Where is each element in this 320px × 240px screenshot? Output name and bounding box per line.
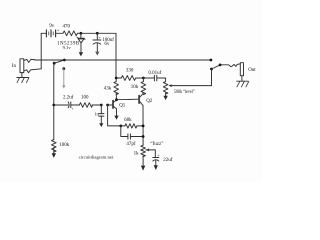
node dot 100uf junction bbox=[96, 32, 99, 35]
input jack ground bbox=[17, 73, 29, 83]
svg-text:22uf: 22uf bbox=[163, 158, 173, 163]
resistor R4 330 bbox=[116, 68, 143, 80]
svg-text:9v: 9v bbox=[49, 24, 55, 29]
wire battery minus down to input jack ring bbox=[40, 33, 42, 69]
pot fuzz ground bbox=[141, 156, 145, 171]
pot VR2 500k level bbox=[163, 82, 211, 96]
svg-text:1k: 1k bbox=[134, 152, 140, 157]
svg-text:68k: 68k bbox=[124, 118, 132, 123]
node dot 47pf right bbox=[142, 135, 145, 138]
output switch lever bbox=[212, 65, 221, 69]
svg-text:2.2uf: 2.2uf bbox=[63, 96, 74, 101]
node dot feedback junction bbox=[106, 104, 109, 107]
svg-text:500k “level”: 500k “level” bbox=[174, 89, 195, 95]
wire Q2 emitter down bbox=[142, 105, 144, 145]
Q1 emitter ground bbox=[114, 109, 118, 120]
resistor R7 100k bbox=[52, 105, 70, 153]
svg-text:100: 100 bbox=[81, 95, 89, 100]
svg-text:+: + bbox=[72, 107, 74, 111]
input switch spare ground arrow bbox=[62, 69, 65, 89]
input switch: node A on bypass wire bbox=[63, 59, 66, 62]
out jack ground bbox=[237, 76, 249, 87]
node dot input junction bbox=[52, 104, 55, 107]
battery B1 9v bbox=[41, 24, 63, 37]
input jack ring contact arm bbox=[24, 69, 41, 73]
capacitor C6 0.01uf bbox=[143, 71, 165, 82]
svg-text:6v: 6v bbox=[104, 42, 110, 47]
wire feedback down and right bbox=[108, 105, 121, 126]
zener D1 1N5239B bbox=[57, 33, 85, 56]
out jack J2 body bbox=[240, 63, 243, 76]
node dot 330 right bbox=[142, 77, 145, 80]
svg-text:circuitdiagram.net: circuitdiagram.net bbox=[79, 154, 114, 159]
wire Q1 collector to Q2 base bbox=[117, 98, 139, 101]
svg-text:330: 330 bbox=[126, 68, 134, 73]
wire switch common to out jack bbox=[220, 65, 234, 67]
transistor Q2 bbox=[139, 94, 153, 106]
output switch: node effect bbox=[210, 68, 213, 71]
resistor R6 68k bbox=[121, 118, 143, 128]
node dot 1n junction bbox=[100, 104, 103, 107]
svg-text:470: 470 bbox=[63, 24, 71, 29]
resistor R5 10k bbox=[131, 78, 146, 95]
pot level ground bbox=[163, 93, 167, 100]
svg-text:+: + bbox=[57, 28, 60, 33]
input switch: node C spare bbox=[62, 67, 65, 70]
node dot 330 left bbox=[115, 77, 118, 80]
output switch: node common bbox=[219, 64, 222, 67]
transistor Q1 bbox=[113, 100, 126, 109]
input jack tip contact arm bbox=[24, 59, 35, 62]
svg-text:Q1: Q1 bbox=[119, 103, 126, 108]
svg-text:Q2: Q2 bbox=[146, 99, 153, 104]
resistor R3 43k bbox=[104, 78, 119, 100]
svg-text:47pf: 47pf bbox=[126, 142, 135, 147]
resistor R2 100 bbox=[79, 95, 101, 107]
capacitor C2 2.2uf bbox=[54, 96, 80, 111]
node dot 68k left bbox=[119, 125, 122, 128]
svg-text:Out: Out bbox=[248, 68, 256, 73]
pot VR1 1k fuzz bbox=[134, 141, 164, 158]
wire effect output up from level pot bbox=[211, 69, 213, 86]
svg-text:0.01uf: 0.01uf bbox=[148, 71, 161, 76]
svg-text:9.1v: 9.1v bbox=[63, 45, 72, 50]
100k ground bbox=[52, 153, 56, 158]
svg-text:100k: 100k bbox=[59, 143, 69, 148]
capacitor C5 22uf bbox=[153, 153, 173, 171]
node dot zener junction bbox=[80, 32, 83, 35]
input switch lever bbox=[54, 60, 64, 63]
capacitor C3 1n bbox=[94, 105, 104, 127]
resistor R1 470 bbox=[63, 24, 81, 35]
out jack tip arm bbox=[234, 64, 240, 67]
node dot 68k right bbox=[142, 125, 145, 128]
wire effect input down bbox=[53, 63, 55, 105]
capacitor C4 47pf bbox=[121, 126, 143, 147]
wire base to Q1 bbox=[108, 104, 113, 106]
svg-text:In: In bbox=[12, 64, 17, 69]
svg-text:1n: 1n bbox=[94, 112, 99, 117]
svg-text:10k: 10k bbox=[131, 85, 139, 90]
wire rail cap to corner bbox=[97, 32, 116, 34]
capacitor C1 100uf 6v bbox=[93, 33, 114, 55]
svg-text:43k: 43k bbox=[104, 86, 112, 91]
wire bypass line bbox=[35, 59, 211, 61]
wire rail zener to cap bbox=[81, 32, 97, 34]
wire Q2 collector up bbox=[142, 92, 144, 95]
input jack J1 body bbox=[20, 59, 24, 73]
node dot Q1 collector / Q2 base bbox=[115, 98, 118, 101]
svg-text:“fuzz”: “fuzz” bbox=[150, 141, 163, 147]
output switch: node bypass bbox=[210, 59, 213, 62]
input switch: node B to effect input bbox=[53, 62, 56, 65]
wire supply rail corner down bbox=[115, 33, 117, 78]
